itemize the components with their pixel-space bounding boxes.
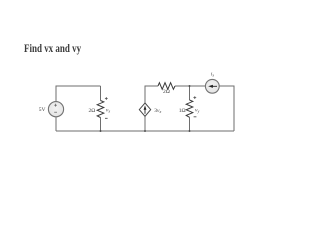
resistor R3 1-ohm vertical (vy): [186, 100, 193, 117]
title text: [24, 44, 81, 56]
wire: node B down to 1-ohm resistor top: [189, 86, 191, 100]
wire: dependent source top up and right to 2-ohm horizontal resistor: [145, 86, 158, 103]
label + vx - for R1: [105, 97, 108, 118]
svg-text:vx: vx: [106, 107, 110, 113]
wire: horizontal resistor right side to node B and current source: [175, 85, 205, 87]
wire: 1-ohm resistor bottom to bottom rail: [189, 117, 191, 131]
label + vy - for R3: [193, 96, 196, 117]
junction node at 1-ohm top: [189, 85, 191, 87]
svg-text:vy: vy: [195, 107, 199, 113]
resistor R1 2-ohm vertical (vx): [97, 101, 104, 118]
svg-text:5V: 5V: [39, 107, 46, 113]
junction node at dependent source bottom: [144, 130, 146, 132]
wire: current source right side to top-right corner and down right edge: [219, 86, 234, 131]
svg-text:3vx: 3vx: [154, 108, 161, 114]
junction node at 2-ohm bottom: [100, 130, 102, 132]
dependent source U1 3vx (diamond, arrow up): [139, 103, 150, 116]
svg-text:2Ω: 2Ω: [163, 89, 170, 95]
wire: bottom rail: [56, 130, 234, 132]
wire: 2-ohm resistor bottom to bottom rail: [100, 118, 102, 132]
wire: 5V source bottom to bottom rail: [55, 117, 57, 131]
voltage source V1 5V: [48, 102, 63, 117]
wire: top-left from 5V source top to node above 2-ohm resistor: [56, 86, 101, 102]
current source I1 ix (arrow left): [205, 79, 219, 93]
wire: from top node down to 2-ohm resistor top: [100, 86, 102, 101]
wire: dependent source bottom to bottom rail: [144, 116, 146, 131]
svg-text:1Ω: 1Ω: [179, 108, 186, 114]
svg-text:ix: ix: [211, 72, 214, 78]
svg-text:2Ω: 2Ω: [89, 108, 96, 114]
resistor R2 2-ohm horizontal: [158, 83, 175, 90]
junction node at 1-ohm bottom: [189, 130, 191, 132]
